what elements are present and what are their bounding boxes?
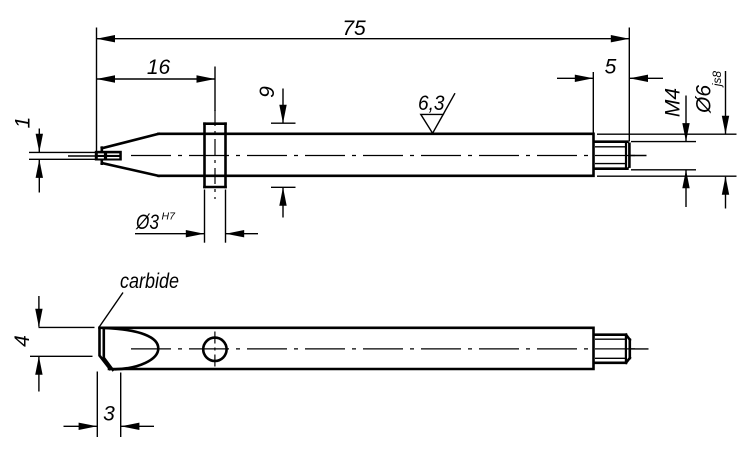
dimension 16 — [97, 56, 216, 83]
svg-text:H7: H7 — [162, 211, 177, 223]
carbide dome tip — [104, 328, 158, 369]
surface finish symbol 6,3 — [418, 92, 455, 133]
carbide label — [99, 270, 179, 327]
svg-text:6,3: 6,3 — [418, 92, 445, 115]
hole centerline vertical — [214, 332, 216, 368]
bottom view threaded end — [595, 335, 630, 363]
needle clamp box — [95, 151, 122, 161]
dimension 9 — [256, 86, 296, 218]
svg-text:4: 4 — [11, 335, 34, 347]
svg-text:3: 3 — [103, 403, 115, 426]
svg-text:1: 1 — [12, 117, 35, 129]
scriber needle — [29, 152, 96, 159]
dimension 4 — [11, 296, 95, 392]
bottom view centerline — [131, 348, 640, 350]
top view body outline — [102, 134, 594, 176]
svg-text:carbide: carbide — [120, 270, 179, 293]
dimension 3 — [64, 372, 155, 438]
svg-text:M4: M4 — [662, 88, 685, 117]
svg-text:Ø3: Ø3 — [135, 211, 159, 234]
svg-text:75: 75 — [342, 17, 366, 40]
extension line left (tip) — [96, 28, 98, 152]
centerline stub right — [629, 155, 647, 157]
extension line body shoulder — [592, 72, 594, 133]
dimension 5 — [557, 56, 663, 83]
dimension O6 js8 — [597, 71, 737, 209]
dimension 75 — [97, 17, 630, 43]
svg-text:16: 16 — [147, 56, 171, 79]
dimension O3 H7 — [135, 190, 258, 243]
centerline stub right bottom view — [630, 348, 649, 350]
cross hole O3 — [203, 338, 226, 361]
top view centerline — [131, 155, 640, 157]
extension line collar center — [214, 67, 216, 112]
collar ring — [205, 124, 226, 187]
dimension M4 — [631, 88, 696, 207]
bottom view body outline — [100, 328, 594, 370]
dimension 1 (tip thickness) — [12, 117, 44, 193]
svg-text:9: 9 — [256, 86, 279, 98]
collar centerline — [214, 110, 216, 199]
svg-text:Ø6: Ø6 — [693, 85, 716, 114]
svg-text:5: 5 — [605, 56, 617, 79]
svg-text:js8: js8 — [710, 71, 724, 89]
extension line right (thread end) — [628, 28, 630, 142]
threaded end M4 — [595, 142, 630, 169]
